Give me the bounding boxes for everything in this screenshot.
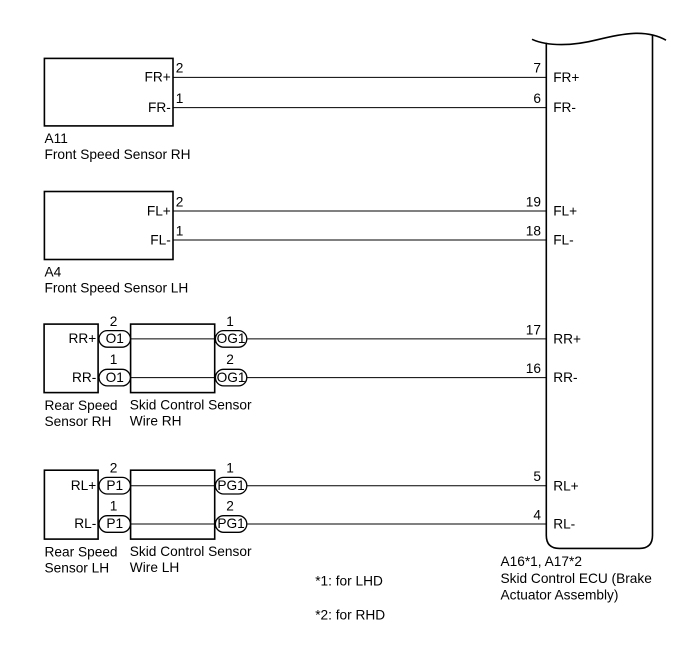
svg-text:17: 17 bbox=[526, 322, 541, 337]
svg-text:16: 16 bbox=[526, 361, 542, 376]
svg-text:RR+: RR+ bbox=[69, 331, 97, 346]
connector P1 row2 bbox=[99, 516, 130, 533]
connector PG1 row1 bbox=[215, 477, 246, 494]
svg-text:2: 2 bbox=[176, 61, 184, 76]
svg-text:Skid Control Sensor: Skid Control Sensor bbox=[130, 397, 252, 412]
wire FL+ A4 pin2 to ECU pin19 bbox=[173, 210, 546, 212]
wire FR+ A11 pin2 to ECU pin7 bbox=[173, 76, 546, 78]
component box Rear Speed Sensor RH bbox=[44, 324, 98, 393]
svg-text:PG1: PG1 bbox=[217, 478, 244, 493]
component box Skid Control Sensor Wire RH bbox=[131, 324, 215, 393]
connector OG1 row1 bbox=[215, 331, 246, 348]
svg-text:18: 18 bbox=[526, 223, 542, 238]
svg-text:Skid Control Sensor: Skid Control Sensor bbox=[130, 544, 252, 559]
svg-text:O1: O1 bbox=[106, 331, 124, 346]
svg-text:OG1: OG1 bbox=[217, 331, 246, 346]
svg-text:RR-: RR- bbox=[72, 370, 96, 385]
svg-text:A11: A11 bbox=[45, 131, 68, 146]
svg-text:Skid Control ECU (Brake: Skid Control ECU (Brake bbox=[501, 571, 652, 586]
svg-text:7: 7 bbox=[533, 61, 541, 76]
svg-text:1: 1 bbox=[226, 460, 234, 475]
svg-text:FL-: FL- bbox=[553, 233, 574, 248]
svg-text:2: 2 bbox=[226, 498, 234, 513]
svg-text:FL+: FL+ bbox=[553, 204, 577, 219]
svg-text:*1: for LHD: *1: for LHD bbox=[315, 574, 383, 589]
component box A4 Front Speed Sensor LH bbox=[44, 192, 173, 260]
svg-text:1: 1 bbox=[110, 498, 118, 513]
svg-text:1: 1 bbox=[176, 91, 184, 106]
svg-text:4: 4 bbox=[533, 507, 541, 522]
svg-text:Front Speed Sensor LH: Front Speed Sensor LH bbox=[45, 280, 189, 295]
svg-text:Sensor RH: Sensor RH bbox=[45, 414, 112, 429]
connector OG1 row2 bbox=[215, 369, 246, 386]
svg-text:RR+: RR+ bbox=[553, 332, 581, 347]
svg-text:RR-: RR- bbox=[553, 370, 577, 385]
svg-text:FR-: FR- bbox=[148, 100, 171, 115]
svg-text:P1: P1 bbox=[106, 516, 123, 531]
svg-text:19: 19 bbox=[526, 194, 541, 209]
svg-text:FR+: FR+ bbox=[145, 70, 171, 85]
svg-text:FL-: FL- bbox=[150, 232, 171, 247]
svg-text:RL-: RL- bbox=[74, 516, 96, 531]
connector PG1 row2 bbox=[215, 516, 246, 533]
svg-text:*2: for RHD: *2: for RHD bbox=[315, 608, 385, 623]
svg-text:RL+: RL+ bbox=[71, 478, 97, 493]
component box Rear Speed Sensor LH bbox=[44, 470, 98, 539]
svg-text:PG1: PG1 bbox=[217, 516, 244, 531]
svg-text:A4: A4 bbox=[45, 264, 62, 279]
svg-text:FR+: FR+ bbox=[553, 70, 579, 85]
svg-text:Rear Speed: Rear Speed bbox=[45, 398, 118, 413]
svg-text:2: 2 bbox=[176, 194, 184, 209]
connector O1 row1 bbox=[99, 331, 130, 348]
svg-text:1: 1 bbox=[226, 314, 234, 329]
svg-text:2: 2 bbox=[110, 314, 118, 329]
wire RR+ rear sensor RH to ECU pin17 bbox=[98, 338, 546, 340]
svg-text:Front Speed Sensor RH: Front Speed Sensor RH bbox=[45, 147, 191, 162]
svg-text:O1: O1 bbox=[106, 370, 124, 385]
svg-text:2: 2 bbox=[226, 352, 234, 367]
wire RL- rear sensor LH to ECU pin4 bbox=[98, 523, 546, 525]
svg-text:Wire RH: Wire RH bbox=[130, 413, 182, 428]
connector O1 row2 bbox=[99, 369, 130, 386]
svg-text:6: 6 bbox=[533, 91, 541, 106]
svg-text:2: 2 bbox=[110, 460, 118, 475]
component box Skid Control Sensor Wire LH bbox=[131, 470, 215, 539]
wire FR- A11 pin1 to ECU pin6 bbox=[173, 107, 546, 109]
svg-text:P1: P1 bbox=[106, 478, 123, 493]
svg-text:FL+: FL+ bbox=[147, 203, 171, 218]
svg-text:1: 1 bbox=[176, 223, 184, 238]
svg-text:Wire LH: Wire LH bbox=[130, 560, 179, 575]
connector P1 row1 bbox=[99, 477, 130, 494]
svg-text:Rear Speed: Rear Speed bbox=[45, 544, 118, 559]
svg-text:RL-: RL- bbox=[553, 517, 575, 532]
component box A16/A17 Skid Control ECU outline bbox=[546, 36, 652, 549]
svg-text:5: 5 bbox=[533, 469, 541, 484]
component box A11 Front Speed Sensor RH bbox=[44, 58, 173, 126]
wire RL+ rear sensor LH to ECU pin5 bbox=[98, 485, 546, 487]
svg-text:Actuator Assembly): Actuator Assembly) bbox=[501, 588, 619, 603]
wire RR- rear sensor RH to ECU pin16 bbox=[98, 377, 546, 379]
svg-text:RL+: RL+ bbox=[553, 478, 579, 493]
svg-text:OG1: OG1 bbox=[217, 370, 246, 385]
svg-text:1: 1 bbox=[110, 352, 118, 367]
svg-text:Sensor LH: Sensor LH bbox=[45, 560, 110, 575]
wire FL- A4 pin1 to ECU pin18 bbox=[173, 239, 546, 241]
svg-text:A16*1, A17*2: A16*1, A17*2 bbox=[501, 554, 582, 569]
ECU torn-edge wavy top bbox=[532, 33, 666, 44]
svg-text:FR-: FR- bbox=[553, 100, 576, 115]
